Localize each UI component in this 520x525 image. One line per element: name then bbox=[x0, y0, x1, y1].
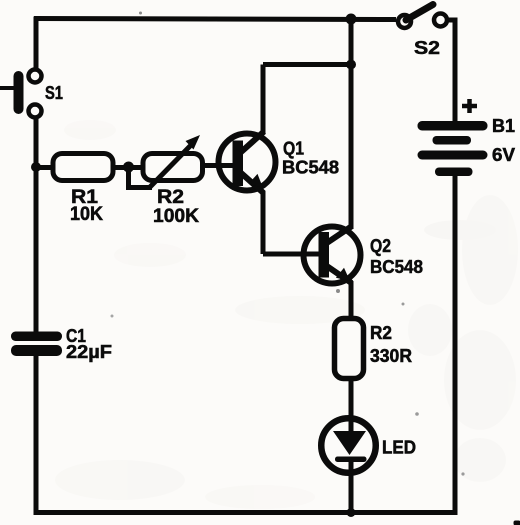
wire S2 to battery bbox=[447, 20, 455, 122]
svg-text:LED: LED bbox=[382, 438, 416, 458]
svg-text:Q2: Q2 bbox=[370, 236, 391, 256]
junction node bottom rail / LED bbox=[347, 508, 356, 517]
wire R1 right lead bbox=[113, 165, 143, 170]
wire left rail upper (top corner to S1) bbox=[34, 17, 39, 69]
wire left rail lower (C1 to bottom) bbox=[34, 355, 39, 515]
svg-text:R2: R2 bbox=[370, 323, 392, 343]
wire collector rail vertical bbox=[349, 17, 354, 229]
svg-text:S1: S1 bbox=[45, 83, 63, 103]
page artifact bottom-right corner bbox=[514, 521, 520, 525]
battery B1 plus sign bbox=[462, 99, 477, 113]
wire bottom rail bbox=[34, 510, 458, 515]
svg-text:BC548: BC548 bbox=[370, 257, 423, 277]
wire Q1 emitter to Q2 base bbox=[263, 252, 320, 257]
junction node R1 / R2 wiper bbox=[123, 162, 134, 173]
transistor Q1 bbox=[219, 132, 276, 194]
LED D1 bbox=[321, 418, 376, 473]
wire right rail (battery minus to bottom) bbox=[453, 175, 458, 515]
svg-text:22µF: 22µF bbox=[66, 342, 112, 362]
svg-text:B1: B1 bbox=[492, 116, 515, 136]
junction node left rail / R1 bbox=[31, 162, 41, 172]
svg-text:10K: 10K bbox=[70, 204, 103, 225]
switch S2 bbox=[398, 5, 447, 29]
svg-text:330R: 330R bbox=[370, 346, 412, 366]
wire left rail middle (S1 to C1) bbox=[34, 119, 39, 333]
wire Q1 emitter drop bbox=[261, 191, 266, 254]
wire R2 to Q1 base bbox=[203, 163, 235, 168]
svg-text:S2: S2 bbox=[414, 38, 440, 58]
transistor Q2 bbox=[304, 226, 361, 284]
wire top rail bbox=[34, 19, 396, 20]
svg-text:BC548: BC548 bbox=[282, 158, 339, 178]
capacitor C1 bbox=[11, 332, 62, 357]
pushbutton S1 bbox=[0, 70, 42, 118]
svg-text:100K: 100K bbox=[153, 206, 199, 227]
potentiometer R2 wiper arrow bbox=[150, 135, 200, 187]
junction node top rail / collector rail bbox=[346, 14, 357, 25]
battery B1 bbox=[418, 121, 488, 176]
wire R2 wiper return bbox=[129, 168, 153, 188]
potentiometer R2 body bbox=[143, 154, 203, 181]
svg-text:R2: R2 bbox=[157, 187, 184, 208]
svg-text:Q1: Q1 bbox=[283, 139, 304, 159]
wire Q2 emitter to R2 330R bbox=[349, 281, 354, 320]
wire Q1 collector to rail bbox=[263, 62, 351, 67]
svg-text:6V: 6V bbox=[492, 145, 515, 165]
wire R1 left lead bbox=[36, 165, 55, 170]
resistor R1 body bbox=[53, 154, 113, 181]
wire R2 330R to LED bbox=[349, 378, 354, 432]
wire Q1 collector riser bbox=[261, 65, 266, 134]
junction node collector rail bbox=[346, 60, 356, 70]
resistor R2 330R body bbox=[335, 319, 364, 379]
paper specks bbox=[111, 12, 465, 476]
wire LED cathode to bottom rail bbox=[349, 460, 354, 514]
